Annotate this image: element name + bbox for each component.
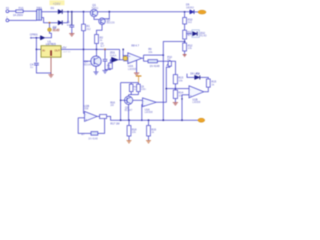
svg-text:BD140: BD140: [84, 62, 92, 66]
test point TP2: [123, 56, 127, 60]
svg-text:IN: IN: [42, 48, 45, 52]
svg-text:SB360: SB360: [186, 5, 194, 9]
svg-text:X1: X1: [6, 6, 10, 10]
svg-text:TIP31: TIP31: [91, 6, 98, 10]
transistor Q2: [99, 18, 115, 25]
transistor Q3: [124, 96, 132, 112]
svg-text:BD139: BD139: [107, 21, 115, 25]
svg-text:TR1: TR1: [36, 6, 42, 10]
wire: [184, 12, 186, 18]
resistor R3: [107, 63, 112, 70]
wire: [23, 10, 36, 12]
wire: [78, 117, 84, 119]
node: [184, 41, 186, 43]
svg-text:LM358: LM358: [128, 67, 136, 71]
svg-text:D6 LED: D6 LED: [190, 72, 199, 76]
svg-text:10k: 10k: [178, 93, 183, 97]
node: [108, 11, 110, 13]
op-amp U2A: [128, 53, 142, 71]
wire: [144, 54, 164, 56]
wire: [204, 87, 209, 92]
wire op-amp gnd: [136, 61, 138, 73]
ground: [183, 55, 187, 57]
op-amp U1B: [189, 86, 204, 104]
resistor R16: [100, 100, 116, 118]
svg-text:10k: 10k: [148, 50, 153, 54]
node: [128, 119, 130, 121]
wire: [120, 83, 122, 121]
wire: [63, 12, 69, 23]
ground: [48, 75, 53, 78]
svg-text:OUT 5V: OUT 5V: [63, 51, 71, 53]
svg-text:5V6A: 5V6A: [110, 53, 117, 57]
wire: [83, 31, 85, 114]
wire: [49, 23, 51, 28]
node: [162, 119, 164, 121]
diode D1: [51, 6, 63, 14]
svg-text:10k: 10k: [178, 78, 183, 82]
wire: [110, 60, 111, 63]
node: [49, 22, 51, 24]
resistor R15: [206, 79, 216, 87]
ground: [173, 103, 178, 106]
wire: [141, 105, 144, 121]
LED D6: [190, 72, 199, 80]
wire: [107, 116, 198, 120]
zener ZD1: [110, 51, 118, 63]
wire: [187, 74, 195, 78]
wire: [83, 12, 85, 25]
node: [184, 11, 186, 13]
svg-text:R7: R7: [167, 57, 171, 61]
wire: [142, 55, 144, 61]
wire: [96, 44, 98, 57]
svg-text:OUT: OUT: [55, 48, 61, 52]
capacitor C7: [100, 44, 107, 71]
capacitor C8: [137, 84, 147, 91]
connector CN1 pin 1: [6, 6, 10, 12]
resistor R12: [183, 43, 193, 51]
svg-text:LM358: LM358: [192, 100, 200, 104]
svg-text:1M: 1M: [110, 103, 114, 107]
svg-text:4k7: 4k7: [187, 34, 192, 37]
regulator U1 7805: [41, 39, 61, 57]
wire: [157, 61, 175, 74]
diode D8: [148, 47, 160, 68]
node: [83, 49, 85, 51]
wire: [123, 60, 128, 62]
resistor R19: [147, 120, 157, 136]
svg-text:1A 250V: 1A 250V: [13, 13, 23, 17]
wire: [163, 42, 184, 121]
resistor R2: [95, 35, 104, 44]
wire: [36, 38, 41, 50]
svg-text:2k2: 2k2: [86, 27, 91, 31]
svg-text:1k2: 1k2: [188, 20, 193, 24]
wire: [42, 18, 58, 23]
node: [181, 98, 183, 100]
ground: [146, 141, 151, 143]
svg-text:+: +: [129, 54, 131, 58]
wire: [128, 136, 130, 140]
wire: [97, 115, 99, 117]
node: [83, 11, 85, 13]
test point TP1: [48, 26, 60, 33]
wire: [174, 84, 176, 90]
transistor Q4: [84, 56, 102, 66]
node A: [30, 37, 32, 39]
connector CN1 pin 2: [6, 17, 9, 22]
wire: [174, 99, 176, 103]
wire: [129, 92, 139, 97]
wire: [122, 49, 124, 55]
node: [148, 119, 150, 121]
wire: [121, 99, 127, 101]
wire: [61, 48, 120, 50]
diode D7: [81, 132, 98, 141]
svg-text:RL4D: RL4D: [200, 34, 207, 38]
node: [120, 100, 122, 102]
node: [71, 11, 73, 13]
wire: [50, 57, 52, 74]
wire: [166, 88, 189, 90]
diode D5: [186, 3, 194, 14]
wire: [184, 24, 186, 31]
node: [122, 49, 124, 51]
wire: [118, 49, 119, 59]
resistor R11: [183, 30, 193, 39]
resistor R13: [173, 75, 183, 84]
power flag: [136, 76, 142, 83]
potentiometer P1: [167, 55, 173, 66]
wire: [120, 56, 128, 60]
wire: [105, 68, 110, 71]
ground: [93, 72, 98, 75]
wire: [84, 112, 85, 114]
svg-text:RL4D: RL4D: [53, 28, 60, 32]
svg-text:R8 4.7: R8 4.7: [131, 43, 139, 47]
svg-text:FU1: FU1: [19, 6, 25, 10]
node: [141, 119, 143, 121]
op-amp U1A: [143, 98, 157, 114]
svg-text:D1: D1: [51, 6, 55, 10]
ground: [127, 141, 132, 143]
wire: [128, 105, 130, 121]
wire: [200, 77, 208, 79]
wire: [42, 11, 58, 13]
wire: [45, 32, 52, 38]
resistor R10: [183, 17, 193, 24]
wire: [95, 66, 97, 72]
svg-text:CP801: CP801: [30, 33, 38, 37]
wire: [84, 60, 92, 62]
resistor R14: [173, 90, 183, 99]
wire: [156, 66, 170, 102]
wire: [131, 83, 138, 85]
zener ZD2: [192, 30, 207, 38]
node: [120, 119, 122, 121]
wire: [35, 49, 37, 62]
diode D2: [53, 21, 62, 32]
fuse FU1: [13, 6, 24, 17]
svg-text:1N 4148: 1N 4148: [150, 64, 160, 68]
wire: [98, 116, 105, 133]
node: [67, 11, 69, 13]
svg-text:+5V: +5V: [62, 45, 67, 49]
node: [165, 88, 167, 90]
transistor Q1: [90, 3, 99, 17]
wire: [31, 37, 40, 39]
wire: [133, 99, 143, 101]
svg-text:100n: 100n: [141, 89, 147, 91]
node: [36, 49, 38, 51]
ground: [134, 73, 139, 76]
node: [162, 54, 164, 56]
node: [175, 88, 177, 90]
wire: [194, 11, 198, 13]
transformer TR1: [36, 6, 42, 20]
wire: [184, 40, 186, 44]
svg-text:-: -: [190, 87, 191, 91]
node: [104, 48, 106, 50]
op-amp U2B: [84, 104, 97, 122]
wire: [104, 12, 109, 19]
wire: [181, 95, 183, 120]
wire: [144, 60, 149, 62]
net label: [198, 118, 205, 122]
svg-text:+: +: [85, 118, 87, 122]
node: [169, 60, 171, 62]
wire: [36, 65, 51, 73]
capacitor C4: [30, 63, 39, 70]
node: [96, 49, 98, 51]
node: [104, 116, 106, 118]
wire: [9, 19, 37, 21]
svg-text:+: +: [190, 94, 192, 98]
svg-text:-: -: [143, 99, 144, 103]
svg-text:4m7: 4m7: [67, 24, 72, 27]
net label +24V highlighted: [50, 0, 65, 6]
resistor R1: [82, 24, 92, 31]
svg-text:LM7805: LM7805: [46, 42, 57, 46]
svg-text:358: 358: [84, 107, 89, 111]
diode D3: [30, 33, 45, 40]
svg-text:-: -: [85, 112, 86, 116]
wire: [187, 33, 192, 35]
resistor R4: [129, 84, 137, 91]
wire: [94, 17, 99, 20]
ground: [69, 34, 74, 37]
net label VOUT: [198, 10, 206, 14]
wire: [121, 82, 139, 84]
svg-text:10k: 10k: [188, 46, 193, 50]
capacitor C1: [67, 12, 74, 34]
svg-text:1N 4148: 1N 4148: [88, 137, 98, 140]
wire: [78, 118, 91, 134]
wire: [97, 25, 103, 35]
wire: [184, 51, 186, 54]
resistor R18: [127, 120, 137, 136]
ground: [102, 71, 107, 74]
wire: [182, 94, 189, 96]
svg-text:LM358: LM358: [145, 110, 153, 114]
wire: [63, 11, 191, 13]
node: [36, 37, 38, 39]
wire: [148, 136, 150, 140]
svg-text:R17 1M: R17 1M: [110, 122, 119, 126]
node: [181, 119, 183, 121]
wire: [9, 10, 16, 12]
svg-text:-: -: [129, 60, 130, 64]
